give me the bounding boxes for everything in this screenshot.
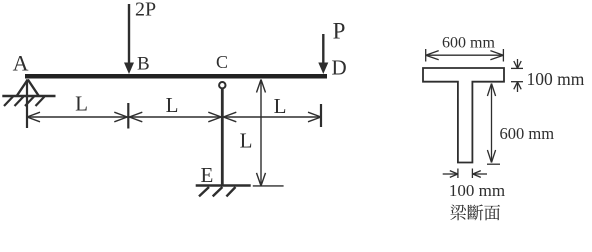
svg-text:L: L [274,94,287,118]
svg-text:D: D [332,56,347,80]
svg-text:B: B [137,54,150,75]
svg-text:100 mm: 100 mm [449,181,505,200]
svg-text:L: L [75,92,88,116]
svg-text:600 mm: 600 mm [442,35,495,52]
svg-text:100 mm: 100 mm [527,69,585,89]
svg-text:600 mm: 600 mm [500,124,555,143]
svg-text:2P: 2P [135,0,156,21]
svg-text:E: E [201,163,214,187]
svg-text:L: L [240,129,253,153]
svg-text:P: P [333,18,346,43]
svg-text:C: C [216,52,228,72]
svg-text:L: L [166,93,179,117]
svg-text:A: A [13,51,29,76]
